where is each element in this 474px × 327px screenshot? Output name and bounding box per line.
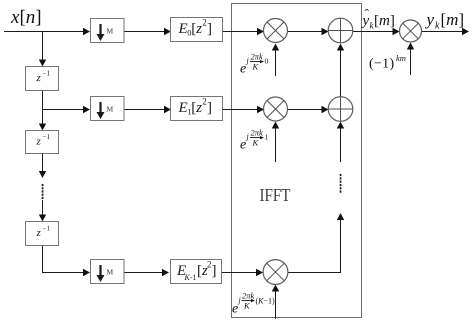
svg-text:2πk: 2πk bbox=[251, 128, 264, 138]
svg-text:e: e bbox=[240, 138, 246, 153]
svg-text:e: e bbox=[240, 62, 246, 77]
svg-text:0: 0 bbox=[265, 57, 269, 66]
svg-text:k: k bbox=[435, 21, 440, 32]
svg-text:]: ] bbox=[212, 263, 217, 279]
svg-text:(K−1): (K−1) bbox=[256, 297, 276, 306]
svg-text:[m]: [m] bbox=[441, 10, 465, 29]
svg-text:M: M bbox=[107, 27, 114, 36]
svg-text:[z: [z bbox=[191, 100, 202, 116]
svg-text:km: km bbox=[396, 53, 406, 63]
svg-text:M: M bbox=[107, 268, 114, 277]
svg-text:x[n]: x[n] bbox=[10, 7, 42, 28]
svg-text:[m]: [m] bbox=[374, 13, 395, 29]
svg-text:]: ] bbox=[207, 21, 212, 37]
svg-text:y: y bbox=[425, 10, 435, 29]
svg-text:−1: −1 bbox=[43, 133, 51, 141]
svg-text:y: y bbox=[361, 13, 370, 29]
svg-text:−1: −1 bbox=[43, 225, 51, 233]
svg-text:K-1: K-1 bbox=[184, 273, 197, 282]
svg-text:E: E bbox=[178, 21, 188, 37]
svg-text:z: z bbox=[36, 72, 42, 84]
svg-text:]: ] bbox=[207, 100, 212, 116]
svg-text:z: z bbox=[36, 136, 42, 148]
svg-text:M: M bbox=[107, 105, 114, 114]
svg-text:(−1): (−1) bbox=[369, 57, 394, 72]
svg-text:e: e bbox=[232, 302, 238, 317]
svg-text:2πk: 2πk bbox=[251, 52, 264, 62]
svg-text:IFFT: IFFT bbox=[260, 185, 291, 205]
svg-text:[z: [z bbox=[191, 21, 202, 37]
svg-text:2πk: 2πk bbox=[242, 291, 255, 301]
svg-text:z: z bbox=[36, 227, 42, 239]
svg-text:−1: −1 bbox=[43, 70, 51, 78]
svg-text:1: 1 bbox=[265, 133, 269, 142]
svg-text:E: E bbox=[178, 100, 188, 116]
